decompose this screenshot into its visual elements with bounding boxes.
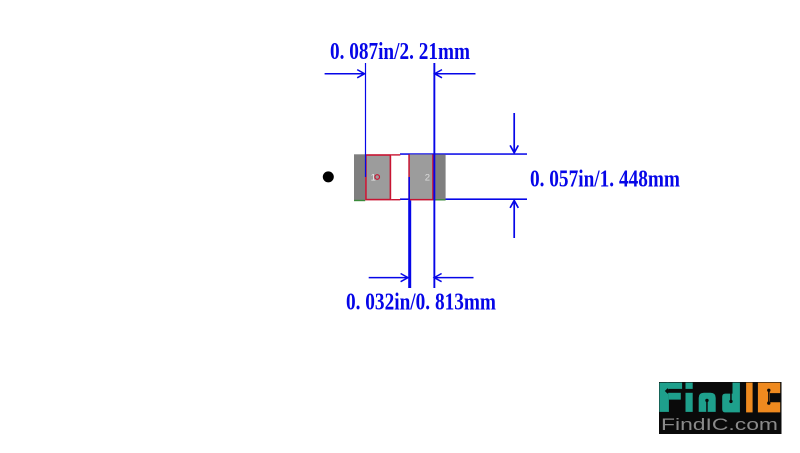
dimension arrow up (height dim, lower) (510, 201, 518, 239)
pad 1 (land with red body outline) (366, 155, 391, 200)
wire (right extension line x=434, shared top/bottom dims) (433, 63, 435, 288)
logo C via trace (767, 389, 770, 405)
svg-text:FindIC.com: FindIC.com (661, 416, 778, 434)
wire (top extension line of height dim) (400, 153, 527, 155)
logo letter i (teal) (686, 383, 693, 412)
ground (green strip under left terminal) (354, 200, 365, 201)
svg-text:0. 087in/2. 21mm: 0. 087in/2. 21mm (330, 39, 470, 65)
logo letter C (orange) (758, 383, 780, 413)
ground (green strip under right terminal) (435, 199, 446, 200)
wire (left extension line of bottom dim, x=409, over pad edge) (408, 177, 410, 201)
node A (pin-1 reference dot) (323, 171, 334, 182)
logo FindIC (black plate) (659, 382, 782, 434)
svg-text:0. 057in/1. 448mm: 0. 057in/1. 448mm (530, 166, 680, 192)
pin 1 indicator ring (375, 175, 380, 180)
logo letter F (teal) (659, 383, 682, 412)
dimension arrow left (points right at x=365) (325, 70, 365, 78)
logo letter n (teal) (699, 393, 716, 412)
dimension arrow left (bottom dim, points right at x=408.5) (369, 274, 408, 282)
wire (left extension line of width dim, x=365) (365, 63, 366, 177)
svg-text:0. 032in/0. 813mm: 0. 032in/0. 813mm (346, 290, 496, 316)
terminal left (dark gray end cap) (354, 154, 365, 200)
dimension arrow right (bottom dim, points left at x=434) (434, 274, 473, 282)
logo letter I (orange) (746, 383, 753, 413)
dimension arrow right (points left at x=434.5) (435, 70, 476, 78)
wire (red body outline top segment) (391, 154, 400, 155)
logo letter d (teal) (722, 383, 740, 413)
terminal right (dark gray end cap) (435, 155, 446, 200)
logo d via trace (729, 390, 732, 403)
dimension arrow down (height dim, upper) (510, 113, 518, 153)
wire (red body outline bottom segment) (391, 199, 400, 200)
logo F via trace (665, 388, 683, 394)
wire (bottom extension line of height dim) (400, 198, 527, 200)
pad 2 (land, red edges; top edge hidden under blue extension line) (409, 154, 432, 200)
svg-text:2: 2 (425, 173, 430, 184)
logo n via trace (705, 399, 708, 412)
